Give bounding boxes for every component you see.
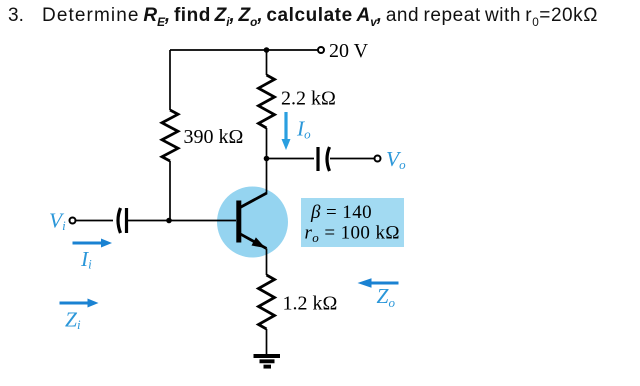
wire: left branch upper <box>169 50 171 110</box>
transistor Q1: emitter lead with arrow <box>240 234 267 249</box>
arrow: Zi impedance (blue, right) <box>60 299 99 308</box>
wire: 2.2k branch lower to collector node <box>266 128 268 159</box>
label: 390 kOhm <box>184 126 244 148</box>
svg-text:390 kΩ: 390 kΩ <box>184 126 244 148</box>
label: 1.2 kOhm <box>283 293 338 315</box>
wire: RE to ground <box>266 329 268 355</box>
wire: input cap to base <box>128 220 236 222</box>
resistor RB 390k <box>162 110 178 161</box>
parameter box: beta and ro <box>301 198 404 247</box>
wire: Vi terminal to input cap <box>76 220 114 222</box>
svg-text:Vo: Vo <box>386 147 406 172</box>
label: beta = 140 <box>310 202 372 223</box>
node: 20V terminal <box>318 47 324 53</box>
label: Zi <box>65 308 81 333</box>
svg-text:Zo: Zo <box>377 284 396 310</box>
wire: top supply rail <box>170 49 318 51</box>
capacitor C2 (output coupling) <box>318 147 330 171</box>
ground <box>254 356 281 367</box>
label: Io <box>296 117 311 142</box>
svg-text:2.2 kΩ: 2.2 kΩ <box>281 88 336 110</box>
wire: output cap to Vo terminal <box>330 158 375 160</box>
svg-text:Vi: Vi <box>49 209 66 234</box>
svg-text:1.2 kΩ: 1.2 kΩ <box>283 293 338 315</box>
label: Ii <box>80 247 92 272</box>
arrow: Ii current (blue, right) <box>73 239 113 248</box>
wire: left branch lower <box>169 161 171 221</box>
transistor Q1: collector lead <box>240 193 267 208</box>
transistor Q1 symbol: base bar <box>236 201 241 243</box>
capacitor C1 (input coupling) <box>118 208 127 233</box>
wire: emitter to RE <box>266 249 268 276</box>
arrow: Io current (blue, down) <box>282 112 291 150</box>
arrow: Zo impedance (blue, left) <box>358 278 399 287</box>
node: top junction <box>264 47 270 53</box>
svg-text:Io: Io <box>296 117 311 142</box>
resistor RC 2.2k <box>259 75 275 128</box>
svg-text:Ii: Ii <box>80 247 92 272</box>
node: Vo terminal <box>375 156 381 162</box>
label: 20 V <box>329 40 369 62</box>
label: Vi <box>49 209 66 234</box>
transistor Q1 highlight circle <box>217 187 288 258</box>
resistor RE 1.2k <box>259 275 275 329</box>
svg-text:Zi: Zi <box>65 308 81 333</box>
svg-text:β = 140: β = 140 <box>310 202 372 223</box>
label: ro = 100 kOhm <box>305 223 400 246</box>
node: Vi terminal <box>70 218 76 224</box>
wire: 2.2k branch upper <box>266 50 268 75</box>
node: base junction with RB <box>166 218 172 224</box>
svg-text:ro = 100 kΩ: ro = 100 kΩ <box>305 223 400 246</box>
svg-text:20 V: 20 V <box>329 40 369 62</box>
wire: collector lead up to node <box>266 159 268 195</box>
label: Vo <box>386 147 406 172</box>
label: 2.2 kOhm <box>281 88 336 110</box>
label: Zo <box>377 284 396 310</box>
wire: collector node to output cap <box>267 158 315 160</box>
node: collector junction <box>264 156 270 162</box>
